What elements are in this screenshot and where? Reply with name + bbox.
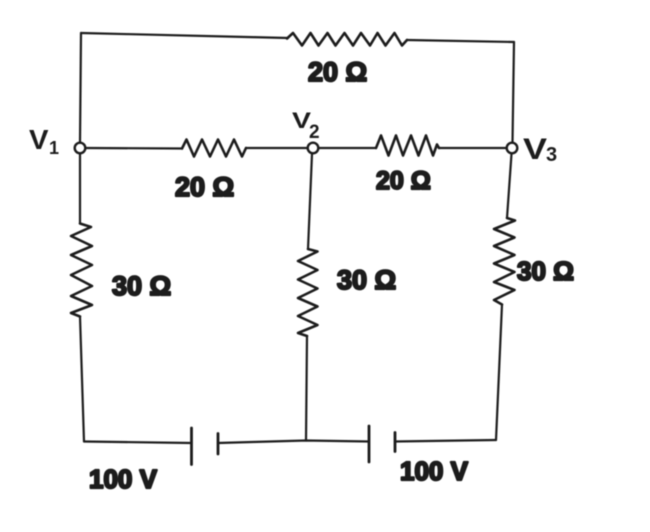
node V2 (circle): [308, 143, 319, 154]
node V3 (circle): [507, 143, 518, 154]
wire: bottom middle segment (B1 to battery B2, through middle junction): [218, 441, 369, 444]
battery B2 short plate: [394, 433, 397, 452]
wire: R2 to V3: [439, 147, 507, 149]
wire: top horizontal, left segment: [81, 33, 288, 38]
svg-text:30 Ω: 30 Ω: [517, 256, 574, 286]
label V3: [523, 133, 557, 166]
battery B2 long plate: [368, 426, 371, 462]
wire: V1 down to R3: [79, 154, 81, 224]
svg-text:2: 2: [309, 122, 320, 143]
svg-text:100 V: 100 V: [89, 464, 158, 494]
svg-text:30 Ω: 30 Ω: [112, 271, 171, 301]
label V2: [292, 108, 320, 143]
wire: left vertical (top-left corner down to node V1): [80, 33, 81, 143]
wire: V1 to R1: [86, 147, 183, 150]
wire: R3 down to bottom-left corner: [80, 317, 84, 442]
svg-text:20 Ω: 20 Ω: [308, 57, 367, 87]
battery B1 short plate: [217, 434, 220, 455]
svg-text:1: 1: [49, 138, 59, 158]
wire: V2 down to R5: [308, 154, 312, 249]
wire: V2 to R2: [319, 147, 376, 149]
svg-text:100 V: 100 V: [400, 456, 469, 486]
wire: V3 down to R6: [507, 154, 512, 218]
svg-text:V: V: [523, 133, 547, 166]
svg-text:30 Ω: 30 Ω: [337, 265, 396, 295]
resistor R1 20 ohm (V1-V2): [182, 140, 246, 157]
wire: R5 down to bottom junction: [306, 336, 307, 441]
svg-text:3: 3: [546, 144, 557, 166]
resistor R3 30 ohm (left vertical): [71, 224, 92, 317]
resistor R4 20 ohm (top): [287, 33, 407, 46]
wire: R6 down to bottom-right corner: [496, 305, 502, 441]
wire: R1 to V2: [246, 147, 307, 149]
battery B1 long plate: [190, 428, 193, 465]
node V1 (circle): [75, 143, 86, 154]
resistor R5 30 ohm (middle vertical): [298, 249, 318, 336]
svg-text:20 Ω: 20 Ω: [376, 167, 431, 195]
wire: right vertical (top-right corner down to node V3): [513, 42, 515, 143]
label V1: [29, 124, 59, 158]
wire: top horizontal, right segment: [407, 40, 514, 42]
resistor R6 30 ohm (right vertical): [494, 218, 515, 305]
svg-text:20 Ω: 20 Ω: [175, 172, 234, 202]
wire: bottom right segment (B2 to bottom-right corner): [395, 440, 496, 442]
resistor R2 20 ohm (V2-V3): [376, 136, 439, 156]
svg-text:V: V: [29, 124, 49, 155]
wire: bottom left segment (corner to battery B1): [84, 442, 192, 444]
